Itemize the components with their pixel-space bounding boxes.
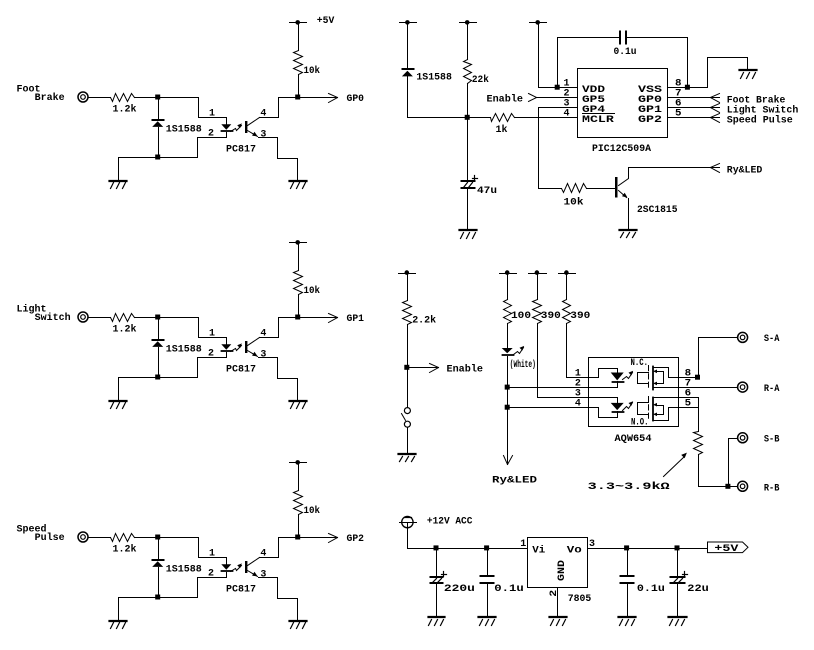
svg-text:N.O.: N.O. [631, 417, 649, 428]
svg-text:0.1u: 0.1u [494, 584, 524, 595]
svg-text:3: 3 [260, 350, 266, 361]
svg-text:MCLR: MCLR [582, 115, 614, 126]
svg-text:Vo: Vo [567, 545, 582, 556]
svg-text:1.2k: 1.2k [113, 104, 137, 116]
svg-text:10k: 10k [304, 65, 321, 77]
svg-text:390: 390 [570, 311, 590, 322]
svg-text:Enable: Enable [487, 94, 524, 106]
svg-text:1: 1 [520, 539, 526, 550]
svg-text:4: 4 [575, 399, 581, 410]
svg-text:Ry&LED: Ry&LED [492, 476, 537, 487]
svg-text:3.3~3.9kΩ: 3.3~3.9kΩ [588, 481, 670, 493]
svg-text:Enable: Enable [447, 364, 484, 376]
svg-text:R-A: R-A [764, 384, 780, 395]
svg-text:0.1u: 0.1u [637, 584, 665, 595]
svg-text:GP1: GP1 [347, 314, 365, 325]
svg-text:GP0: GP0 [347, 94, 365, 105]
svg-text:+5V: +5V [317, 16, 335, 27]
svg-text:4: 4 [564, 109, 570, 120]
svg-text:5: 5 [685, 399, 692, 410]
svg-text:+12V ACC: +12V ACC [427, 516, 473, 527]
svg-text:Switch: Switch [35, 312, 71, 324]
svg-text:2: 2 [208, 569, 214, 580]
svg-text:Speed Pulse: Speed Pulse [727, 114, 793, 126]
svg-text:1S1588: 1S1588 [416, 72, 452, 83]
svg-text:2: 2 [208, 129, 214, 140]
svg-text:+5V: +5V [714, 544, 738, 555]
svg-text:AQW654: AQW654 [615, 434, 652, 445]
svg-text:GP2: GP2 [347, 534, 365, 545]
svg-text:1: 1 [209, 548, 215, 559]
svg-text:1.2k: 1.2k [113, 324, 137, 336]
svg-text:2SC1815: 2SC1815 [637, 205, 678, 216]
svg-text:4: 4 [260, 548, 266, 559]
svg-text:PIC12C509A: PIC12C509A [592, 144, 651, 155]
svg-text:3: 3 [260, 570, 266, 581]
svg-text:47u: 47u [477, 186, 497, 197]
svg-text:390: 390 [541, 311, 561, 322]
svg-text:S-B: S-B [764, 435, 780, 446]
svg-text:1.2k: 1.2k [113, 544, 137, 556]
svg-text:3: 3 [260, 130, 266, 141]
svg-text:7805: 7805 [568, 594, 592, 605]
svg-text:100: 100 [511, 311, 531, 322]
svg-text:Brake: Brake [35, 92, 65, 104]
svg-text:GP2: GP2 [638, 115, 662, 126]
svg-text:1: 1 [209, 108, 215, 119]
svg-text:4: 4 [260, 328, 266, 339]
svg-text:2: 2 [549, 590, 560, 597]
svg-text:PC817: PC817 [226, 365, 256, 376]
svg-text:2: 2 [208, 349, 214, 360]
svg-text:1S1588: 1S1588 [166, 344, 202, 355]
svg-text:1: 1 [209, 328, 215, 339]
svg-text:2.2k: 2.2k [412, 315, 436, 327]
svg-text:4: 4 [260, 108, 266, 119]
svg-text:10k: 10k [304, 505, 321, 517]
svg-text:(White): (White) [510, 359, 536, 371]
svg-text:1S1588: 1S1588 [166, 564, 202, 575]
svg-text:S-A: S-A [764, 334, 780, 345]
svg-text:Ry&LED: Ry&LED [727, 165, 763, 176]
svg-text:PC817: PC817 [226, 145, 256, 156]
svg-text:Pulse: Pulse [35, 532, 65, 544]
svg-text:0.1u: 0.1u [614, 47, 637, 58]
svg-text:GND: GND [557, 560, 568, 581]
svg-text:Vi: Vi [532, 544, 545, 556]
svg-text:220u: 220u [444, 584, 475, 595]
svg-text:22u: 22u [687, 584, 709, 595]
svg-text:22k: 22k [472, 74, 489, 86]
svg-text:1S1588: 1S1588 [166, 124, 202, 135]
svg-text:10k: 10k [304, 285, 321, 297]
svg-text:R-B: R-B [764, 483, 780, 494]
svg-text:1k: 1k [496, 124, 508, 136]
svg-text:10k: 10k [564, 197, 584, 209]
svg-text:PC817: PC817 [226, 585, 256, 596]
svg-text:N.C.: N.C. [631, 358, 649, 369]
